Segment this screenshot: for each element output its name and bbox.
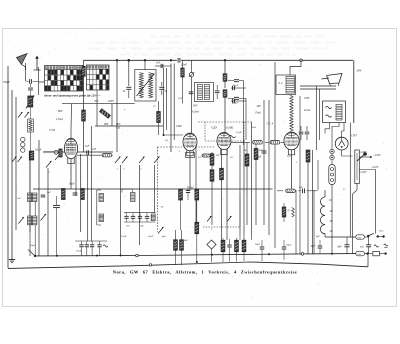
wire: [75, 156, 77, 196]
wire: [173, 64, 175, 141]
pill resistor: [202, 154, 210, 157]
node: [144, 59, 146, 61]
ballast tube: [329, 165, 335, 185]
wire bus: [263, 100, 265, 225]
wire: [75, 240, 107, 242]
resistor: [181, 68, 184, 77]
dashed AGC line: [158, 146, 216, 148]
speaker: [327, 74, 343, 84]
svg-text:28V: 28V: [257, 105, 262, 108]
node: [136, 254, 139, 257]
wire: [70, 130, 72, 138]
switch contact: [139, 157, 145, 164]
wire: [364, 253, 372, 255]
wire: [342, 150, 353, 156]
capacitor: [186, 190, 190, 192]
capacitor in rail: [177, 58, 179, 63]
svg-text:100V: 100V: [304, 97, 310, 100]
wire: [15, 97, 17, 230]
svg-text:8nF: 8nF: [338, 245, 343, 248]
wire: [356, 184, 358, 191]
wire: [342, 123, 345, 138]
svg-text:0,1μF: 0,1μF: [236, 131, 242, 134]
capacitor 50uF: [262, 150, 267, 152]
wire: [299, 96, 301, 254]
svg-text:5nF: 5nF: [47, 191, 52, 194]
squiggle: [374, 245, 379, 247]
wire: [96, 91, 98, 104]
capacitor: [90, 244, 94, 246]
wire: [38, 140, 40, 256]
wire: [139, 165, 141, 245]
wire: [246, 143, 248, 154]
svg-text:4,2mA: 4,2mA: [192, 111, 199, 114]
wire: [39, 81, 45, 83]
resistor: [82, 110, 86, 121]
wire rail A: [35, 254, 356, 256]
wire bus: [274, 62, 276, 248]
svg-text:Nora, GW 67 Elektra, Allstr: Nora, GW 67 Elektra, Allstrom, 1 Vorkrei…: [113, 270, 297, 275]
indicator: [189, 73, 193, 77]
wire: [189, 151, 191, 190]
wire: [124, 212, 156, 214]
svg-text:CЧ7: CЧ7: [351, 134, 357, 138]
capacitor: [159, 86, 164, 88]
choke coil: [290, 96, 293, 132]
wire: [35, 209, 57, 211]
capacitor: [53, 204, 60, 206]
wire: [316, 86, 318, 150]
tube CY7: [335, 137, 348, 150]
resistor: [210, 154, 214, 166]
selector lever: [357, 155, 364, 161]
svg-text:41mA: 41mA: [304, 109, 310, 112]
wire: [170, 64, 172, 153]
wire: [359, 169, 375, 171]
jack strip: [21, 137, 25, 141]
transformer L4 frame: [276, 75, 296, 95]
wire: [34, 202, 36, 217]
wire: [90, 126, 92, 241]
wire top rail right: [181, 59, 353, 61]
IF transformer T2: [195, 83, 214, 102]
capacitor: [97, 244, 101, 246]
wire bus: [251, 122, 253, 235]
svg-text:17mA: 17mA: [255, 112, 261, 115]
capacitor: [189, 91, 194, 93]
capacitor: [85, 244, 89, 246]
oscillator coil: [131, 193, 136, 202]
wire: [291, 95, 293, 96]
wire: [7, 66, 9, 268]
resistor: [29, 151, 34, 160]
coil: [336, 105, 342, 121]
coil: [205, 85, 210, 100]
oscillator coil: [99, 194, 104, 202]
wire: [364, 236, 369, 238]
lamp: [330, 149, 334, 153]
wire: [34, 225, 36, 256]
svg-text:100V: 100V: [108, 100, 114, 103]
coil: [28, 216, 32, 225]
wire: [44, 151, 54, 153]
wire: [62, 103, 135, 105]
wire: [29, 152, 31, 193]
wire: [277, 190, 283, 192]
diagonal resistor: [100, 109, 111, 119]
node: [224, 59, 226, 61]
node: [149, 264, 151, 266]
wire: [11, 90, 13, 257]
svg-text:4,3mA: 4,3mA: [56, 118, 63, 121]
trimmer capacitor: [145, 215, 149, 217]
svg-text:4μF: 4μF: [299, 186, 303, 189]
svg-text:CL 4: CL 4: [267, 122, 274, 126]
wire rail B: [8, 262, 368, 268]
trimmer capacitor: [124, 215, 128, 217]
svg-text:50μF: 50μF: [148, 235, 154, 238]
capacitor: [366, 244, 371, 246]
resistor: [223, 74, 227, 82]
capacitor: [299, 131, 304, 133]
tube V2 base: [186, 153, 195, 158]
svg-text:8μF: 8μF: [311, 245, 316, 248]
wire top rail: [84, 59, 177, 61]
wire mid: [33, 188, 273, 190]
tube CL4: [284, 132, 299, 150]
switch contact: [18, 112, 23, 118]
wire: [313, 190, 315, 254]
svg-text:2nF: 2nF: [92, 148, 97, 151]
node: [196, 261, 198, 263]
wire: [307, 162, 309, 254]
resistor: [306, 150, 310, 162]
svg-text:≈220V: ≈220V: [360, 151, 367, 154]
tube V3: [217, 132, 231, 149]
node: [170, 59, 172, 61]
wire grid: [231, 141, 250, 143]
coil: [292, 208, 295, 218]
wire: [359, 156, 370, 158]
svg-text:10nF: 10nF: [181, 64, 187, 67]
svg-text:50μF: 50μF: [256, 156, 262, 159]
resistor: [242, 240, 246, 252]
wire: [47, 168, 49, 256]
squiggle: [103, 245, 108, 247]
capacitor: [28, 87, 33, 89]
transformer T1: [135, 70, 156, 102]
coil: [139, 73, 143, 99]
resistor: [81, 189, 85, 200]
svg-text:50μF: 50μF: [255, 243, 261, 246]
resistor: [62, 189, 66, 200]
wire bus: [95, 125, 163, 127]
resistor: [157, 112, 161, 123]
svg-text:Strom- und Spannungswerte gelt: Strom- und Spannungswerte gelten für 220…: [44, 93, 101, 97]
arrow to antenna: [36, 58, 38, 70]
svg-text:U: U: [343, 188, 345, 191]
wire: [224, 97, 226, 132]
switch contact: [115, 157, 121, 164]
wire: [166, 68, 168, 130]
resistor: [174, 240, 178, 251]
wire: [30, 83, 32, 87]
wire: [313, 190, 315, 263]
wire: [224, 60, 226, 74]
wire: [77, 154, 113, 156]
fuse 500: [356, 251, 365, 255]
switch contact: [154, 157, 160, 164]
svg-text:8nF: 8nF: [184, 239, 189, 242]
wire: [251, 235, 253, 240]
capacitor: [345, 244, 350, 246]
output transformer: [323, 101, 346, 123]
node: [300, 59, 303, 62]
wire: [80, 154, 82, 232]
wire: [70, 159, 72, 189]
wire: [116, 60, 118, 152]
wire: [96, 190, 98, 225]
svg-text:0,1μF: 0,1μF: [76, 250, 82, 253]
svg-text:0,1MΩ: 0,1MΩ: [226, 127, 233, 130]
pill resistor: [253, 141, 263, 145]
wire: [111, 104, 113, 127]
svg-text:50μF: 50μF: [189, 186, 195, 189]
capacitor: [86, 150, 88, 155]
wire: [83, 121, 85, 152]
svg-text:98V: 98V: [104, 123, 109, 126]
wire: [231, 87, 246, 89]
wire chassis: [300, 85, 336, 87]
coil: [28, 119, 34, 132]
resistor: [245, 154, 249, 166]
svg-text:0,3V: 0,3V: [287, 155, 292, 158]
svg-text:CЧ1: CЧ1: [49, 128, 56, 132]
dashed line: [203, 226, 240, 228]
capacitor: [29, 79, 31, 84]
node: [120, 255, 122, 257]
dashed AGC line: [157, 147, 159, 232]
switch contact: [46, 161, 52, 168]
switch contact: [19, 217, 25, 224]
svg-text:≈110V: ≈110V: [372, 166, 379, 169]
grid resistor: [82, 66, 85, 76]
wire: [96, 104, 98, 127]
squiggle: [326, 106, 332, 108]
switch contact: [12, 157, 17, 163]
svg-text:8nF: 8nF: [360, 246, 365, 249]
wire: [325, 123, 330, 134]
capacitor: [234, 96, 239, 98]
wire: [29, 152, 31, 232]
wire: [87, 156, 89, 242]
wire: [221, 150, 223, 169]
svg-text:3nF: 3nF: [156, 62, 161, 65]
trimmer capacitor: [138, 215, 142, 217]
node: [301, 253, 304, 256]
node: [128, 59, 130, 61]
wire: [255, 142, 257, 148]
wire: [25, 63, 27, 81]
antenna: [17, 54, 28, 65]
wire bus: [243, 140, 245, 235]
capacitor: [215, 90, 220, 92]
potentiometer: [28, 96, 33, 107]
chart table right: [87, 65, 110, 90]
node: [331, 253, 333, 255]
squiggle: [229, 135, 236, 137]
dashed box: [205, 140, 244, 142]
svg-text:1nF: 1nF: [17, 197, 22, 200]
wire: [231, 100, 246, 102]
capacitor: [126, 86, 131, 88]
svg-text:L1a: L1a: [115, 127, 121, 130]
wire: [331, 185, 333, 254]
capacitor 50uF: [282, 246, 287, 248]
antenna coil: [28, 193, 32, 202]
node: [56, 255, 58, 257]
trimmer capacitor: [131, 215, 135, 217]
switch contact: [41, 214, 47, 221]
resistor: [235, 240, 239, 252]
wire: [83, 76, 85, 110]
svg-text:8μF: 8μF: [316, 235, 321, 238]
dropper coil Dr: [324, 190, 326, 197]
wire: [332, 123, 339, 150]
resistor: [220, 168, 224, 180]
coil: [149, 73, 153, 99]
resistor: [282, 207, 286, 217]
chart table left: [45, 66, 84, 92]
dashed line: [239, 195, 241, 227]
tube V1: [64, 138, 77, 158]
switch contact: [122, 157, 128, 164]
wire: [163, 68, 165, 135]
wire: [291, 150, 293, 190]
tuning arrow: [137, 74, 155, 97]
capacitor 50uF: [260, 246, 265, 248]
coil: [198, 85, 203, 100]
wire: [290, 60, 301, 75]
wire: [325, 236, 356, 238]
wire: [331, 154, 333, 156]
resistor: [195, 222, 199, 234]
svg-text:4μF: 4μF: [162, 235, 167, 238]
capacitor: [232, 86, 234, 91]
wire: [353, 60, 355, 123]
resistor: [221, 240, 225, 252]
switch contact: [34, 255, 36, 257]
switch contact: [158, 227, 164, 234]
coil: [151, 214, 155, 221]
wire: [295, 190, 297, 254]
pill resistor: [102, 154, 111, 157]
wire bus: [239, 145, 241, 235]
wire: [164, 134, 184, 136]
node: [211, 254, 213, 256]
svg-text:500pF: 500pF: [3, 81, 10, 84]
svg-text:50μF: 50μF: [69, 183, 75, 186]
capacitor: [305, 131, 310, 133]
svg-text:50μF: 50μF: [233, 102, 239, 105]
switch contact: [227, 216, 232, 222]
wire: [367, 254, 369, 267]
resistor: [254, 149, 258, 160]
capacitor: [73, 192, 78, 194]
wire: [144, 60, 146, 69]
svg-text:0,1μF: 0,1μF: [121, 235, 127, 238]
ground: [11, 257, 13, 260]
svg-text:88V: 88V: [58, 110, 63, 113]
resistor: [179, 189, 183, 200]
wire chassis: [300, 88, 336, 90]
mains switch: [367, 235, 369, 237]
capacitor: [227, 244, 231, 246]
svg-text:CB2: CB2: [176, 124, 182, 128]
svg-text:Netz: Netz: [378, 230, 383, 233]
lamp: [330, 155, 334, 159]
svg-text:0,1μF: 0,1μF: [35, 148, 42, 151]
capacitor: [160, 64, 162, 68]
wire: [349, 123, 351, 237]
voltage selector: [355, 150, 360, 184]
wire: [155, 65, 171, 67]
IF transformer T1 frame: [135, 70, 156, 102]
svg-text:CД3: CД3: [211, 126, 217, 130]
resistor: [210, 170, 214, 182]
capacitor: [79, 244, 83, 246]
pill resistor: [286, 189, 296, 192]
node: [116, 59, 118, 61]
tube V2: [183, 133, 197, 151]
wire: [124, 221, 156, 223]
wire: [226, 150, 228, 241]
wire: [195, 146, 197, 225]
capacitor: [232, 99, 234, 104]
svg-text:L 4: L 4: [278, 81, 283, 85]
resistor: [180, 240, 184, 251]
resistor: [223, 90, 227, 98]
svg-text:2V: 2V: [153, 105, 156, 108]
capacitor: [41, 194, 46, 196]
switch contact: [207, 216, 212, 222]
wire mid: [34, 189, 36, 256]
dashed AGC line: [198, 121, 252, 123]
wire: [317, 160, 319, 190]
coil: [286, 77, 295, 94]
svg-text:50μF: 50μF: [286, 244, 292, 247]
capacitor: [318, 245, 323, 247]
svg-text:50nF: 50nF: [251, 126, 257, 129]
phono jack: [207, 240, 216, 249]
svg-text:50μF: 50μF: [233, 84, 239, 87]
switch contact: [55, 154, 61, 161]
wire: [211, 165, 213, 170]
capacitor: [234, 79, 239, 81]
mains plug: [367, 253, 369, 255]
wire: [239, 235, 241, 240]
svg-text:10V: 10V: [178, 97, 183, 100]
capacitor: [302, 189, 304, 194]
svg-text:5nF: 5nF: [85, 145, 90, 148]
resistor: [195, 189, 199, 200]
wire: [38, 67, 40, 95]
node: [268, 253, 270, 255]
svg-text:50μF: 50μF: [30, 244, 36, 247]
svg-text:70V: 70V: [94, 100, 99, 103]
wire: [154, 165, 156, 213]
wire: [331, 83, 333, 101]
